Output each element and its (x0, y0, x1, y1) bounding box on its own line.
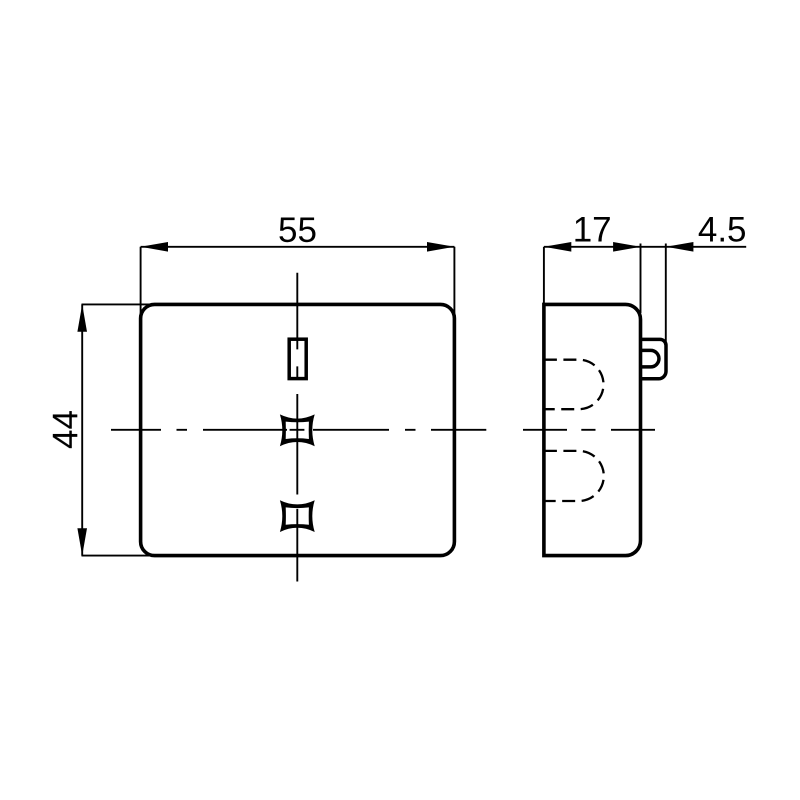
star feature lower (280, 500, 315, 532)
centerline vertical front view (296, 273, 298, 582)
clip tab inner slot (641, 350, 659, 367)
arrowhead 4.5 (666, 242, 693, 252)
dimension line 17 with continuation (544, 246, 666, 248)
arrowhead 44 top (77, 304, 87, 331)
arrowhead 17 right (613, 242, 640, 252)
dimension line 44 (81, 304, 83, 555)
centerline horizontal front view (111, 429, 486, 431)
svg-text:44: 44 (46, 410, 85, 449)
extension line 55 left (140, 247, 142, 317)
arrowhead 17 left (544, 242, 571, 252)
centerline horizontal side view (523, 429, 655, 431)
arrowhead 44 bottom (77, 528, 87, 555)
extension line 17 left (543, 247, 545, 305)
extension line 17 right (640, 244, 642, 314)
star feature middle (280, 414, 315, 446)
extension line 55 right (453, 247, 455, 317)
side view body outline (544, 304, 641, 555)
front view body outline (141, 304, 455, 555)
svg-text:4.5: 4.5 (698, 211, 747, 250)
svg-text:17: 17 (573, 211, 612, 250)
hidden hole lower (dashed dome) (544, 451, 604, 501)
arrowhead 55 right (427, 242, 454, 252)
dimension leader 4.5 (666, 246, 746, 248)
extension line 44 bottom (82, 555, 155, 557)
arrowhead 55 left (141, 242, 168, 252)
hidden hole upper (dashed dome) (544, 360, 604, 410)
svg-text:55: 55 (278, 211, 317, 250)
dimension line 55 (141, 246, 455, 248)
extension line 4.5 (665, 244, 667, 345)
extension line 44 top (82, 303, 155, 305)
clip tab outer profile (641, 339, 667, 378)
slot feature (small rectangle) (289, 339, 306, 378)
